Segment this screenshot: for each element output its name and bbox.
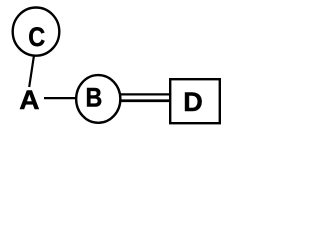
svg-text:A: A xyxy=(19,84,39,114)
svg-text:C: C xyxy=(28,23,45,53)
svg-text:D: D xyxy=(183,87,203,117)
svg-text:B: B xyxy=(86,83,103,113)
